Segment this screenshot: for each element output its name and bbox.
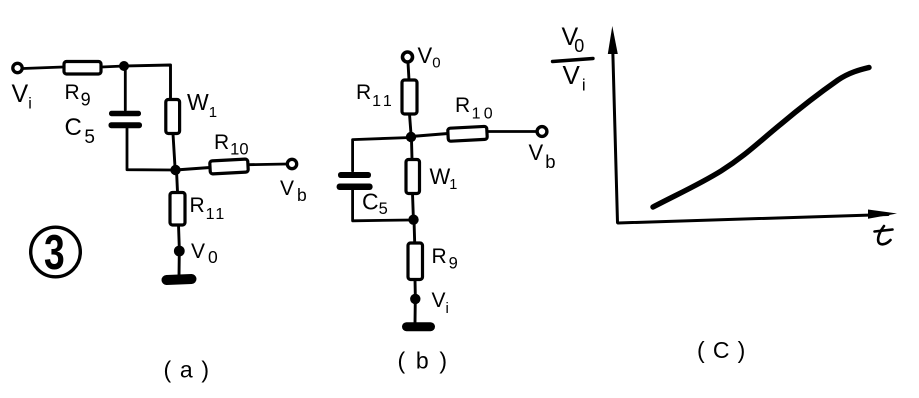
wire R10 to terminal Vb (circuit b) xyxy=(487,130,537,133)
ground (circuit b) xyxy=(407,322,431,331)
wire node C to C5 (circuit b) xyxy=(353,138,411,172)
resistor R9 (circuit b) xyxy=(408,243,423,280)
svg-text:V0: V0 xyxy=(562,23,585,56)
resistor R10 xyxy=(210,159,249,174)
wire W1 bottom to node B xyxy=(173,134,175,167)
svg-text:Vi: Vi xyxy=(432,289,449,317)
resistor W1 (circuit b) xyxy=(406,160,420,194)
label t xyxy=(878,226,890,244)
wire R11 to node C (circuit b) xyxy=(410,114,412,134)
x-axis xyxy=(618,215,888,224)
resistor W1 xyxy=(166,100,180,134)
terminal Vi (circuit a) xyxy=(13,63,22,72)
node D junction dot (circuit b) xyxy=(408,215,418,225)
node Vi dot (circuit b) xyxy=(410,294,420,304)
wire V0 to ground xyxy=(178,252,181,277)
ground (circuit a) xyxy=(167,279,192,280)
wire V0 to R11 (circuit b) xyxy=(408,63,409,81)
svg-text:(C): (C) xyxy=(697,337,754,363)
svg-text:(b): (b) xyxy=(398,348,458,374)
svg-text:Vi: Vi xyxy=(12,80,32,113)
y-axis arrowhead xyxy=(608,26,618,54)
wire node A down to C5 xyxy=(124,66,127,110)
figure number circle 3 xyxy=(31,227,81,277)
wire node B to R10 xyxy=(176,168,211,171)
terminal Vb (circuit a) xyxy=(287,159,296,168)
wire C5 to node D (circuit b) xyxy=(353,190,410,221)
capacitor C5 plate 2 xyxy=(109,122,143,128)
wire R10 to terminal Vb xyxy=(248,163,287,166)
resistor R9 xyxy=(64,62,101,75)
wire node C to W1 (circuit b) xyxy=(410,140,413,159)
svg-text:W1: W1 xyxy=(430,164,458,193)
terminal Vb (circuit b) xyxy=(537,127,547,137)
wire node D to R9 (circuit b) xyxy=(413,220,417,243)
wire C5 bottom to node B xyxy=(127,129,174,171)
node V0 dot xyxy=(174,246,185,257)
wire W1 to node D (circuit b) xyxy=(411,194,415,217)
svg-text:C5: C5 xyxy=(65,114,95,148)
svg-text:Vb: Vb xyxy=(280,177,307,205)
svg-text:R10: R10 xyxy=(455,94,496,123)
capacitor C5 plate 1 xyxy=(109,111,141,116)
y-axis xyxy=(613,40,618,223)
wire node A to W1 top xyxy=(124,65,171,99)
wire R11 to node V0 xyxy=(177,225,181,248)
node B junction dot xyxy=(170,165,180,175)
svg-text:R11: R11 xyxy=(190,194,227,223)
wire R9 to node Vi (circuit b) xyxy=(414,280,417,296)
wire R9 to node A xyxy=(102,66,125,67)
wire Vi to ground (circuit b) xyxy=(414,299,417,323)
svg-text:R10: R10 xyxy=(214,131,249,159)
x-axis arrowhead xyxy=(868,210,897,219)
svg-text:R9: R9 xyxy=(432,245,458,273)
response curve xyxy=(653,68,869,208)
node C junction dot (circuit b) xyxy=(406,132,416,142)
svg-text:V0: V0 xyxy=(418,43,441,72)
svg-text:(a): (a) xyxy=(164,357,218,383)
wire node B to R11 xyxy=(177,170,178,192)
resistor R11 (circuit b) xyxy=(402,80,417,114)
node A junction dot xyxy=(119,61,129,71)
resistor R11 xyxy=(170,193,185,226)
svg-text:W1: W1 xyxy=(187,89,217,121)
svg-text:C5: C5 xyxy=(362,189,388,219)
wire Vi to R9 xyxy=(23,67,63,69)
svg-text:V0: V0 xyxy=(191,240,218,267)
svg-text:3: 3 xyxy=(44,226,65,280)
capacitor C5 plate 1 (circuit b) xyxy=(338,172,371,178)
wire node C to R10 (circuit b) xyxy=(411,134,448,137)
fraction bar xyxy=(553,59,594,62)
svg-text:Vb: Vb xyxy=(529,140,556,172)
capacitor C5 plate 2 (circuit b) xyxy=(337,184,373,191)
svg-text:Vi: Vi xyxy=(563,60,586,95)
svg-text:R9: R9 xyxy=(65,81,91,110)
resistor R10 (circuit b) xyxy=(448,126,488,141)
terminal V0 (circuit b) xyxy=(403,52,413,62)
svg-text:R11: R11 xyxy=(356,81,395,110)
